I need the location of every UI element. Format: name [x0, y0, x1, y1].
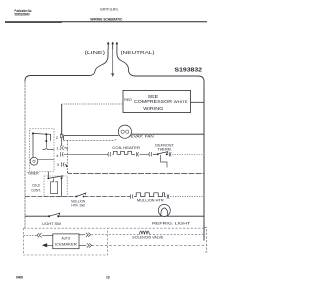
svg-text:ICEMAKER: ICEMAKER	[55, 242, 78, 246]
thermostat capillary hook	[161, 155, 168, 168]
wire cold control to mullion line	[61, 178, 63, 196]
svg-text:THERM.: THERM.	[157, 147, 172, 151]
resistor mullion heater	[134, 193, 166, 197]
terminal 4	[56, 152, 63, 158]
wire mullion heater to right bus	[170, 196, 204, 198]
wire defrost heater line	[64, 153, 109, 155]
icemaker fill arrow	[42, 243, 53, 247]
svg-text:1: 1	[56, 146, 58, 150]
svg-text:COMPRESSOR: COMPRESSOR	[134, 99, 173, 105]
terminal 1	[56, 146, 67, 151]
timer internal wire to motor	[32, 133, 34, 157]
wire solenoid to right bus	[149, 233, 204, 235]
svg-text:19: 19	[106, 275, 110, 279]
timer motor	[30, 157, 38, 165]
mullion heater plug left	[130, 194, 133, 198]
wire heater to thermostat	[140, 153, 150, 155]
header publication number	[15, 9, 33, 16]
svg-text:2: 2	[56, 136, 58, 140]
solenoid coil	[139, 231, 149, 234]
wire fan second lead	[64, 136, 117, 141]
wire from timer terminal 3 to right bus	[65, 165, 204, 174]
resistor coil heater	[113, 151, 136, 154]
svg-text:3: 3	[57, 163, 59, 167]
timer contact elbow	[45, 134, 50, 142]
wire thermostat to right bus	[172, 153, 204, 155]
svg-text:(LINE): (LINE)	[85, 50, 106, 56]
wire light line	[25, 215, 49, 217]
header model number	[100, 8, 118, 12]
ground wire with arrow	[111, 49, 114, 77]
svg-text:SOLENOID VALVE: SOLENOID VALVE	[132, 236, 164, 240]
svg-text:HTR. SW.: HTR. SW.	[71, 204, 85, 208]
svg-text:RED: RED	[124, 98, 132, 102]
wire vertical feed to timer terminal 2	[61, 104, 63, 135]
cold control box	[31, 176, 67, 196]
wire icemaker lower to right vertical	[92, 244, 207, 246]
defrost thermostat	[149, 152, 171, 157]
wire dashed run above icemaker to right bus	[24, 227, 205, 229]
mullion heater switch	[76, 193, 86, 197]
svg-text:GRTF1LRG: GRTF1LRG	[100, 8, 118, 12]
refrigerator lamp	[158, 204, 170, 216]
right return dashed vertical	[204, 228, 207, 253]
timer switch arm	[32, 132, 47, 135]
icemaker enclosure	[24, 228, 108, 255]
wire line-side from plug to left bus	[25, 49, 108, 81]
wire white from compressor box to right bus	[191, 101, 205, 103]
svg-text:S193832: S193832	[175, 67, 203, 73]
svg-text:AUTO: AUTO	[62, 236, 71, 240]
wire solenoid line	[91, 233, 139, 235]
svg-text:LIGHT SW.: LIGHT SW.	[42, 222, 62, 226]
svg-text:(NEUTRAL): (NEUTRAL)	[121, 50, 156, 56]
wire evaporator fan line	[64, 134, 205, 135]
defrost timer box	[27, 129, 54, 176]
svg-text:REFRIG. LIGHT: REFRIG. LIGHT	[152, 222, 191, 226]
svg-text:COIL HEATER: COIL HEATER	[112, 146, 140, 150]
terminal 3	[57, 162, 64, 167]
compressor box	[123, 91, 191, 113]
svg-text:MULLION HTR: MULLION HTR	[137, 199, 165, 203]
svg-text:WIRING SCHEMATIC: WIRING SCHEMATIC	[90, 17, 122, 21]
left bus wire	[24, 81, 26, 229]
mullion heater plug right	[167, 194, 169, 198]
svg-text:CONT.: CONT.	[31, 188, 41, 192]
timer internal wire crossing	[43, 141, 55, 150]
svg-text:WIRING: WIRING	[143, 106, 163, 112]
coil heater plug right	[136, 152, 138, 156]
cold control bellows	[51, 178, 58, 193]
svg-text:5995335840: 5995335840	[15, 12, 30, 16]
timer internal wire from motor	[38, 159, 54, 161]
wire neutral-side from plug to right bus	[117, 49, 204, 82]
plug prong left	[107, 42, 110, 50]
icemaker right plug lower	[79, 243, 92, 247]
light switch	[48, 213, 60, 217]
coil heater plug left	[108, 152, 111, 156]
cold control switch	[47, 176, 62, 179]
svg-text:4: 4	[56, 154, 58, 158]
svg-text:TIMER: TIMER	[27, 172, 39, 176]
wire switch to lamp	[58, 215, 204, 217]
evap fan motor	[118, 125, 131, 138]
header rule	[5, 21, 207, 23]
wire terminal2 to terminal4	[61, 137, 63, 146]
right bus wire	[203, 82, 205, 241]
wire switch to mullion heater	[84, 196, 130, 198]
wire red feed to compressor box	[62, 103, 123, 105]
wire mullion heater line	[25, 196, 76, 198]
wire timer terminal1 to cold control	[47, 172, 49, 179]
svg-text:WHITE: WHITE	[174, 100, 189, 104]
label DEFROST THERM.	[155, 143, 174, 151]
svg-text:COLD: COLD	[32, 184, 40, 188]
svg-text:0400: 0400	[16, 275, 23, 279]
icemaker right plug upper	[79, 233, 91, 237]
header title WIRING SCHEMATIC	[90, 17, 122, 21]
label MULLION HTR. SW.	[71, 200, 85, 208]
icemaker left plug	[24, 233, 53, 237]
terminal 2	[56, 134, 63, 140]
plug prong right	[116, 42, 119, 50]
plug prong middle	[111, 42, 114, 50]
icemaker box	[53, 234, 79, 249]
wire terminal column dashed	[66, 140, 68, 171]
svg-text:EVAP. FAN: EVAP. FAN	[131, 134, 155, 138]
